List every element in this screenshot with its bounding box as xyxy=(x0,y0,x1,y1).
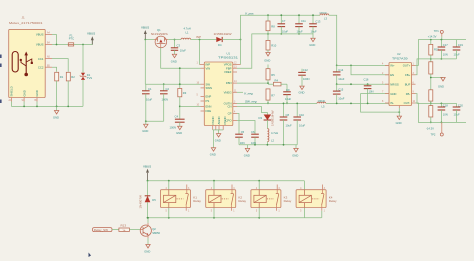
svg-text:GND: GND xyxy=(215,138,221,142)
svg-text:Molex_2171750001: Molex_2171750001 xyxy=(9,21,43,25)
resistor R15 xyxy=(429,39,440,62)
svg-text:GND: GND xyxy=(142,129,148,133)
svg-text:TPS65131: TPS65131 xyxy=(218,55,239,59)
op-amp U2 TPS7A39 xyxy=(389,52,412,105)
svg-text:IN+: IN+ xyxy=(390,64,395,68)
svg-text:D1: D1 xyxy=(87,73,91,77)
svg-text:EN: EN xyxy=(390,73,394,77)
power flag VBUS xyxy=(87,31,95,44)
svg-text:TP1: TP1 xyxy=(434,29,439,33)
svg-text:D5: D5 xyxy=(152,198,156,202)
svg-text:PGND: PGND xyxy=(211,116,215,124)
ground symbol GND (U2 mid) xyxy=(430,77,445,89)
wire CC1 to R2 xyxy=(52,59,68,72)
capacitor C14 xyxy=(333,65,345,86)
svg-text:Relay: Relay xyxy=(284,199,292,203)
svg-text:FB+: FB+ xyxy=(405,73,411,77)
svg-text:R4: R4 xyxy=(275,78,279,82)
wire R3 node to U1 xyxy=(180,105,201,107)
svg-text:C5: C5 xyxy=(241,130,245,134)
capacitor C1 xyxy=(142,84,152,121)
svg-text:C3: C3 xyxy=(177,43,181,47)
svg-text:U1: U1 xyxy=(227,52,231,56)
svg-text:C6: C6 xyxy=(251,130,255,134)
ground symbol GND (C1 C2) xyxy=(144,124,148,128)
svg-text:R5: R5 xyxy=(271,73,275,77)
svg-text:CC1: CC1 xyxy=(38,57,44,61)
svg-text:L5: L5 xyxy=(322,105,325,109)
ground symbol GND (C12) xyxy=(299,86,305,95)
svg-text:GND: GND xyxy=(171,59,177,63)
svg-text:VBUS: VBUS xyxy=(36,33,44,37)
svg-text:GND: GND xyxy=(309,43,315,47)
wire relay bottom rail xyxy=(148,217,322,219)
wire cap bottoms xyxy=(268,33,313,35)
svg-text:GND: GND xyxy=(299,91,305,95)
U2 pin stubs xyxy=(382,64,416,109)
resistor R1 xyxy=(55,72,64,106)
svg-text:L3: L3 xyxy=(324,17,327,21)
svg-text:U2: U2 xyxy=(397,52,401,56)
svg-text:VBUS: VBUS xyxy=(87,31,95,35)
resistor R18 xyxy=(429,106,433,124)
svg-text:VBUS: VBUS xyxy=(143,164,151,168)
svg-text:R13: R13 xyxy=(121,223,127,227)
wire D4 to V_pos rail xyxy=(222,39,240,41)
svg-text:FBN: FBN xyxy=(226,81,232,85)
ground symbol GND (Q2) xyxy=(144,238,150,253)
U2 pin names xyxy=(390,64,410,106)
svg-text:Relay: Relay xyxy=(329,199,337,203)
transistor Q1 xyxy=(151,28,169,48)
svg-text:V_pos: V_pos xyxy=(245,12,254,16)
wire Q1 gate xyxy=(161,48,201,68)
U1 pin stubs xyxy=(197,63,241,130)
svg-text:GND: GND xyxy=(244,153,250,157)
ground rail USB xyxy=(11,105,83,107)
svg-text:Relay_SW: Relay_SW xyxy=(94,228,108,232)
wire OUT- rail xyxy=(416,103,467,122)
svg-text:10uF: 10uF xyxy=(299,123,305,127)
wire L1 to D4, node INP xyxy=(191,39,217,41)
wire IN- rail xyxy=(268,102,317,104)
svg-text:GND: GND xyxy=(176,131,182,135)
svg-text:OUT-: OUT- xyxy=(404,101,411,105)
svg-text:BUF: BUF xyxy=(405,82,411,86)
wire relay top rail xyxy=(148,180,305,182)
wire EN link xyxy=(350,65,389,75)
svg-text:C13: C13 xyxy=(315,20,320,24)
svg-text:R1: R1 xyxy=(60,75,64,79)
svg-text:VIN: VIN xyxy=(206,66,211,70)
wire FBN xyxy=(237,82,268,84)
svg-text:1N5819HW: 1N5819HW xyxy=(214,32,232,36)
svg-text:D4: D4 xyxy=(218,43,222,47)
relay K4 xyxy=(296,181,337,218)
svg-text:C11: C11 xyxy=(301,19,306,23)
capacitor C3 xyxy=(171,39,186,55)
svg-text:+14.3V: +14.3V xyxy=(428,35,437,39)
svg-text:TPS7A39: TPS7A39 xyxy=(392,56,408,60)
svg-text:10uF: 10uF xyxy=(146,98,152,102)
ground symbol GND xyxy=(53,106,59,119)
svg-text:10uF: 10uF xyxy=(311,29,317,33)
svg-text:-14.3V: -14.3V xyxy=(426,127,434,131)
resistor R7 xyxy=(266,89,275,104)
wire VPOS riser xyxy=(241,15,321,64)
wire VBUS A4 xyxy=(52,35,56,45)
J1 pin names xyxy=(10,33,44,97)
USB connector J1 xyxy=(9,16,46,98)
USB symbol glyph xyxy=(12,52,33,77)
svg-text:4.7uH: 4.7uH xyxy=(271,131,278,135)
svg-text:C16: C16 xyxy=(364,78,369,82)
svg-text:SHIELD: SHIELD xyxy=(10,86,14,96)
svg-text:FRE: FRE xyxy=(206,109,212,113)
wire Q1 drain to L1 xyxy=(168,39,181,41)
svg-text:1N5819HW: 1N5819HW xyxy=(270,110,274,126)
ground symbol GND (C3) xyxy=(171,54,177,63)
svg-text:D3: D3 xyxy=(259,116,263,120)
wire C1 C2 ground join xyxy=(146,120,164,122)
ground symbol GND (C13) xyxy=(309,38,315,47)
svg-text:L2: L2 xyxy=(271,139,274,143)
capacitor C15 xyxy=(333,84,345,104)
capacitor C10 xyxy=(293,103,305,145)
capacitor C8 xyxy=(280,103,292,145)
svg-text:10uF: 10uF xyxy=(338,96,344,100)
TVS diode D1 xyxy=(80,45,92,107)
svg-text:10N: 10N xyxy=(369,90,374,94)
capacitor C18 xyxy=(438,103,449,124)
wire V_pos to U2 riser xyxy=(329,15,337,65)
svg-text:10N: 10N xyxy=(443,112,448,116)
resistor R2 xyxy=(66,72,75,106)
ground symbol GND (R10) xyxy=(264,53,270,63)
inductor L5 xyxy=(317,99,326,109)
svg-text:PTC: PTC xyxy=(69,37,74,41)
svg-text:VBUS: VBUS xyxy=(36,43,44,47)
wire FB+ link xyxy=(416,59,457,75)
capacitor C4 xyxy=(170,115,185,136)
svg-text:S8050: S8050 xyxy=(152,231,160,235)
capacitor C2 xyxy=(160,83,169,121)
svg-text:Relay: Relay xyxy=(193,199,201,203)
svg-text:GND: GND xyxy=(264,59,270,63)
power flag VBUS (Q1) xyxy=(141,26,149,40)
wire IN+ to U2 xyxy=(337,64,389,66)
capacitor C19 xyxy=(453,40,464,59)
inductor L1 xyxy=(181,27,191,40)
wire GND link U2 xyxy=(361,94,400,113)
resistor R8 xyxy=(266,14,275,40)
svg-text:VBUS: VBUS xyxy=(141,26,149,30)
diode D5 1N4007W xyxy=(139,181,157,218)
capacitor C6 xyxy=(237,121,259,146)
svg-text:OUT+: OUT+ xyxy=(403,64,411,68)
svg-text:ENN: ENN xyxy=(206,105,212,109)
wire bottom rail xyxy=(239,144,297,146)
svg-text:R2: R2 xyxy=(71,75,75,79)
relay K3 xyxy=(251,181,292,218)
svg-text:1N4007W: 1N4007W xyxy=(139,195,143,209)
svg-text:SW_neg: SW_neg xyxy=(245,99,257,103)
svg-text:PS: PS xyxy=(206,99,210,103)
ground symbol GND (C5) xyxy=(244,145,250,158)
ground symbol GND (rail) xyxy=(292,145,298,158)
capacitor C9 xyxy=(283,84,291,104)
capacitor C16 xyxy=(364,78,374,105)
svg-text:R8: R8 xyxy=(271,25,275,29)
svg-text:ENP: ENP xyxy=(206,95,212,99)
relay K1 xyxy=(161,181,202,218)
ground symbol GND (U2) xyxy=(396,108,402,125)
relay K2 xyxy=(206,181,247,218)
ground symbol GND (AGND) xyxy=(210,130,216,157)
svg-text:PGND: PGND xyxy=(223,116,227,124)
resistor R4 xyxy=(268,78,287,86)
capacitor C7 xyxy=(278,14,289,35)
svg-text:Relay: Relay xyxy=(238,199,246,203)
svg-text:NR/SS: NR/SS xyxy=(390,82,399,86)
resistor R5 xyxy=(266,65,275,84)
svg-text:GND: GND xyxy=(438,85,444,89)
wire CC2 to R1 xyxy=(52,67,57,72)
diode D3 1N5819HW xyxy=(237,107,274,129)
svg-text:GND: GND xyxy=(35,90,39,96)
svg-text:100N: 100N xyxy=(303,77,309,81)
svg-text:10uF: 10uF xyxy=(285,97,291,101)
svg-text:FB-: FB- xyxy=(406,92,411,96)
capacitor C12 xyxy=(298,68,309,86)
svg-text:GND: GND xyxy=(292,153,298,157)
capacitor C5 xyxy=(235,114,244,146)
svg-text:J1: J1 xyxy=(22,16,26,20)
svg-text:AGND: AGND xyxy=(217,116,221,124)
svg-text:C7: C7 xyxy=(282,19,286,23)
resistor R16 xyxy=(429,62,433,90)
svg-text:INP: INP xyxy=(196,35,201,39)
resistor R3 xyxy=(178,67,187,119)
svg-text:GND: GND xyxy=(144,249,150,253)
svg-text:GND: GND xyxy=(390,92,396,96)
svg-text:100N: 100N xyxy=(170,125,176,129)
U1 bottom ground wires xyxy=(213,130,224,142)
cursor mark xyxy=(89,253,92,258)
svg-text:R3: R3 xyxy=(183,91,187,95)
svg-text:SI2329DS: SI2329DS xyxy=(151,32,168,36)
wire INP drop to U1 xyxy=(199,40,201,65)
svg-text:10N: 10N xyxy=(443,52,448,56)
wire VIN rail to U1 xyxy=(145,83,200,85)
svg-text:GND: GND xyxy=(53,116,59,120)
diode D4 1N5819HW xyxy=(214,32,232,47)
capacitor C13 xyxy=(309,14,321,38)
resistor R13 xyxy=(119,223,140,232)
resistor R17 xyxy=(429,90,433,106)
svg-text:10uF: 10uF xyxy=(282,29,288,33)
wire FBP feedback xyxy=(237,34,268,68)
wire fuse to VBUS flag xyxy=(74,41,93,45)
wire FB- link xyxy=(416,94,457,104)
svg-text:V_neg: V_neg xyxy=(244,92,253,96)
inductor L3 xyxy=(319,11,329,21)
svg-text:VREF: VREF xyxy=(224,70,232,74)
svg-text:C12: C12 xyxy=(303,68,308,72)
svg-text:IN-: IN- xyxy=(390,101,394,105)
svg-text:L1: L1 xyxy=(186,31,189,35)
wire OUT+ rail xyxy=(416,40,467,66)
op-amp U1 TPS65131 xyxy=(204,52,238,126)
power flag VBUS (relays) xyxy=(143,164,151,180)
svg-text:10uF: 10uF xyxy=(338,77,344,81)
svg-text:CP: CP xyxy=(228,112,232,116)
test point TP2 xyxy=(426,122,443,136)
svg-text:C4: C4 xyxy=(175,115,179,119)
wire NR rail xyxy=(337,83,389,85)
svg-text:CC2: CC2 xyxy=(38,65,44,69)
svg-text:GND: GND xyxy=(23,90,27,96)
svg-text:R10: R10 xyxy=(271,44,276,48)
wire Q1 source down to rail xyxy=(144,40,146,85)
svg-text:10uF: 10uF xyxy=(180,49,186,53)
svg-text:GND: GND xyxy=(396,121,402,125)
svg-text:4.7uH: 4.7uH xyxy=(184,27,191,31)
svg-text:Q2: Q2 xyxy=(152,227,156,231)
J1 pin stubs and numbers xyxy=(9,32,53,102)
svg-text:10uF: 10uF xyxy=(286,123,292,127)
inductor L2 xyxy=(267,129,278,145)
wire VBUS B4 to fuse xyxy=(52,44,68,46)
svg-text:R7: R7 xyxy=(271,93,275,97)
test point TP1 xyxy=(428,29,444,39)
svg-text:VNEG: VNEG xyxy=(224,91,232,95)
wire VBUS to Q1 xyxy=(145,39,154,41)
fuse F1 PTC xyxy=(68,33,74,46)
capacitor C11 xyxy=(295,14,306,35)
U1 pin names xyxy=(206,63,233,125)
svg-text:CN: CN xyxy=(227,105,231,109)
svg-text:SWN: SWN xyxy=(206,86,213,90)
svg-text:1k: 1k xyxy=(122,229,126,233)
net flag Relay_SW xyxy=(93,228,119,232)
resistor R10 xyxy=(266,40,277,52)
capacitor C20 xyxy=(453,103,464,122)
svg-text:GND: GND xyxy=(210,153,216,157)
svg-text:TP2: TP2 xyxy=(431,132,436,136)
capacitor C17 xyxy=(438,39,449,60)
svg-text:TVS: TVS xyxy=(87,76,92,80)
svg-text:10uF: 10uF xyxy=(297,29,303,33)
transistor Q2 xyxy=(140,217,160,238)
svg-text:100N: 100N xyxy=(162,98,168,102)
